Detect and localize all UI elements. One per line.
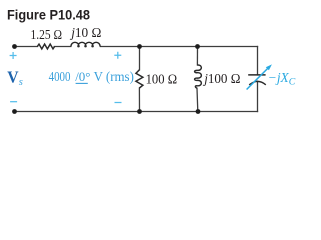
- svg-text:Figure P10.48: Figure P10.48: [7, 6, 90, 22]
- svg-text:s: s: [19, 77, 23, 88]
- svg-text:j100 Ω: j100 Ω: [202, 72, 240, 87]
- svg-text:−jXC: −jXC: [268, 70, 296, 88]
- svg-text:/0°: /0°: [75, 69, 90, 84]
- svg-text:V: V: [7, 68, 19, 87]
- svg-text:j10 Ω: j10 Ω: [69, 26, 101, 41]
- svg-text:V (rms): V (rms): [94, 70, 135, 85]
- svg-text:4000: 4000: [49, 70, 71, 85]
- svg-text:1.25 Ω: 1.25 Ω: [31, 28, 63, 43]
- svg-text:100 Ω: 100 Ω: [146, 73, 178, 88]
